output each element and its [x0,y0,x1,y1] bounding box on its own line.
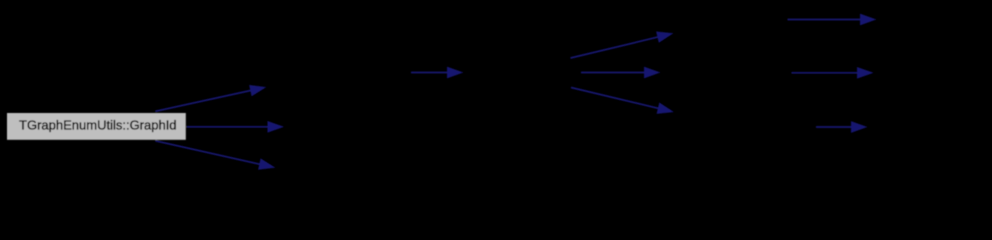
edge box to node1 (upper) [155,85,265,111]
edge box to node2 (middle) [187,121,284,132]
edge node4 to node6 (middle) [581,67,660,78]
edge node5 to node8 (top right) [788,14,876,25]
svg-text:TGraphEnumUtils::GraphId: TGraphEnumUtils::GraphId [19,117,177,132]
edge node4 to node7 (lower) [571,88,673,114]
edge box to node3 (lower) [155,141,274,170]
edge node4 to node5 (upper) [571,32,673,58]
node TGraphEnumUtils::GraphId [7,113,186,140]
edge node7 to node10 (lower right) [816,122,867,133]
edge node2 to node4 [411,67,463,78]
edge node6 to node9 (mid right) [792,67,873,78]
